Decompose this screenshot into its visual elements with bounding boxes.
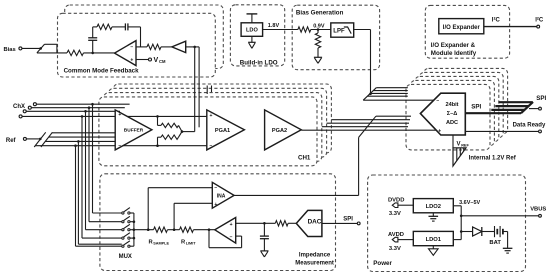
svg-text:3.6V–5V: 3.6V–5V (459, 200, 480, 206)
svg-text:Bias Generation: Bias Generation (296, 9, 344, 16)
svg-text:0.9V: 0.9V (313, 23, 325, 29)
svg-text:LDO1: LDO1 (426, 237, 442, 243)
svg-text:I/O Expander: I/O Expander (443, 25, 481, 31)
svg-text:24bit: 24bit (445, 102, 458, 108)
svg-text:CM: CM (159, 59, 166, 64)
svg-text:REF: REF (461, 144, 469, 148)
svg-text:−: − (436, 98, 439, 104)
svg-text:I/O Expander &: I/O Expander & (431, 42, 476, 49)
svg-text:Common Mode Feedback: Common Mode Feedback (64, 67, 140, 74)
svg-text:BUFFER: BUFFER (124, 128, 144, 134)
svg-text:−: − (230, 235, 233, 241)
svg-text:Ref: Ref (6, 138, 17, 144)
svg-text:LIMIT: LIMIT (186, 242, 197, 246)
svg-text:Internal 1.2V Ref: Internal 1.2V Ref (469, 155, 517, 161)
svg-text:SAMPLE: SAMPLE (153, 242, 169, 246)
svg-text:Bias: Bias (4, 47, 16, 53)
svg-text:PGA1: PGA1 (215, 128, 230, 134)
svg-text:VBUS: VBUS (530, 207, 546, 213)
svg-text:+: + (130, 57, 133, 63)
svg-text:Data Ready: Data Ready (513, 123, 546, 129)
svg-text:+: + (214, 202, 217, 208)
svg-text:SPI: SPI (343, 217, 353, 223)
svg-text:V: V (154, 57, 159, 64)
svg-text:Power: Power (373, 260, 392, 267)
svg-text:−: − (209, 143, 212, 149)
svg-text:3.3V: 3.3V (389, 246, 401, 252)
svg-text:I²C: I²C (535, 17, 544, 24)
svg-text:+: + (118, 112, 121, 118)
svg-text:SPI: SPI (536, 95, 546, 102)
svg-text:LDO2: LDO2 (426, 204, 441, 210)
svg-text:SPI: SPI (471, 104, 481, 111)
svg-text:−: − (130, 45, 133, 51)
svg-text:3.3V: 3.3V (389, 211, 401, 217)
svg-text:Σ–Δ: Σ–Δ (447, 111, 458, 117)
svg-text:Impedance: Impedance (299, 252, 331, 258)
svg-text:V: V (457, 142, 461, 148)
svg-text:MUX: MUX (119, 254, 132, 260)
svg-text:LDO: LDO (246, 28, 258, 34)
svg-text:CH1: CH1 (298, 154, 311, 161)
svg-text:AVDD: AVDD (388, 232, 404, 238)
svg-text:+: + (438, 128, 441, 134)
svg-text:ADC: ADC (446, 120, 458, 126)
svg-text:DAC: DAC (308, 218, 322, 225)
svg-text:PGA2: PGA2 (272, 128, 287, 134)
svg-text:−: − (118, 143, 121, 149)
svg-text:Build-in LDO: Build-in LDO (240, 59, 278, 66)
svg-text:INA: INA (217, 194, 226, 200)
svg-text:+: + (209, 113, 212, 119)
svg-text:BAT: BAT (489, 240, 501, 246)
svg-text:ChX: ChX (13, 104, 25, 110)
svg-text:LPF: LPF (333, 28, 345, 34)
svg-text:Measurement: Measurement (295, 260, 334, 266)
svg-text:I²C: I²C (492, 17, 501, 24)
svg-text:DVDD: DVDD (388, 198, 404, 204)
svg-text:Module Identify: Module Identify (431, 50, 477, 57)
svg-text:−: − (214, 185, 217, 191)
svg-text:+: + (230, 222, 233, 228)
svg-text:1.8V: 1.8V (268, 23, 280, 29)
